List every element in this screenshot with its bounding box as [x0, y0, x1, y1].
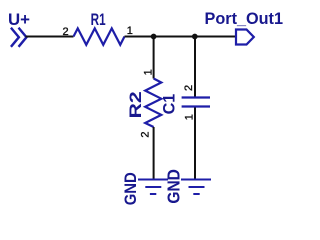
- capacitor C1 top plate: [182, 96, 210, 98]
- ground symbol right: [181, 180, 211, 195]
- wire: junction to R2 pin 1: [153, 37, 155, 79]
- svg-text:U+: U+: [8, 10, 30, 29]
- ground symbol left: [138, 180, 168, 195]
- wire: C1 pin 1 to GND: [194, 108, 196, 180]
- wire: R1 pin 1 to Port_Out1 with junctions: [125, 36, 237, 38]
- wire: R2 pin 2 to GND: [153, 127, 155, 180]
- port Port_Out1 symbol: [236, 30, 254, 45]
- junction node at C1 branch: [192, 34, 198, 40]
- svg-text:GND: GND: [122, 172, 140, 205]
- junction node at R2 branch: [151, 34, 157, 40]
- svg-text:2: 2: [140, 131, 152, 137]
- svg-text:1: 1: [184, 114, 196, 120]
- svg-text:Port_Out1: Port_Out1: [205, 9, 284, 28]
- port U+ symbol: [12, 29, 27, 46]
- svg-text:2: 2: [183, 85, 195, 91]
- capacitor C1 bottom plate: [182, 105, 210, 107]
- svg-text:1: 1: [143, 69, 155, 75]
- svg-text:2: 2: [62, 26, 68, 38]
- svg-text:C1: C1: [160, 94, 178, 115]
- svg-text:1: 1: [127, 25, 133, 37]
- wire: junction to C1 pin 2: [194, 37, 196, 97]
- svg-text:R1: R1: [91, 10, 106, 29]
- svg-text:GND: GND: [164, 169, 184, 204]
- resistor R1: [74, 28, 125, 44]
- resistor R2: [145, 79, 161, 128]
- wire: U+ port to R1 pin 2: [26, 36, 74, 38]
- svg-text:R2: R2: [127, 91, 145, 118]
